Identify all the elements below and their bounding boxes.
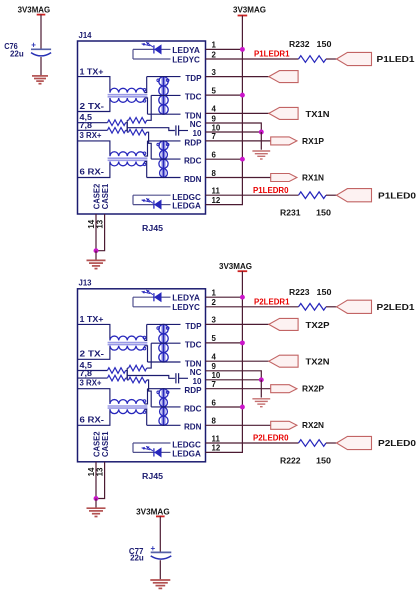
svg-text:P2LEDR0: P2LEDR0 (253, 434, 289, 443)
svg-text:TDC: TDC (185, 340, 202, 349)
wire CASE2 pin 14 stub (J14) (95, 214, 97, 251)
wire pin6 RX- into choke (J14) (78, 162, 110, 178)
svg-text:6: 6 (212, 398, 217, 407)
LED yellow LEDYA/LEDYC inside J14 (133, 42, 171, 59)
svg-text:2 TX-: 2 TX- (80, 102, 105, 111)
svg-text:TDC: TDC (185, 93, 202, 102)
wire choke to RX transformer top (J13) (145, 389, 148, 404)
wire to chassis ground (J14) (95, 251, 97, 260)
connector J14 RJ45 jack body (78, 41, 206, 214)
svg-text:7: 7 (212, 132, 217, 141)
wire pin3 RX+ into choke (J13) (78, 389, 110, 404)
LED green LEDGC/LEDGA inside J14 (133, 195, 171, 209)
transformer RX common-mode choke (J14) (108, 152, 148, 166)
wire CASE1 pin 13 stub (J14) (96, 214, 105, 251)
svg-text:6: 6 (212, 151, 217, 160)
capacitor C76 22u (31, 41, 51, 56)
svg-text:P2LED1: P2LED1 (377, 303, 416, 312)
ground shield pins 9/10 (J13) (252, 399, 270, 407)
wire choke to TX transformer bottom (J14) (145, 98, 148, 114)
wire pin12 to 3V3MAG rail end (J14) (206, 204, 244, 206)
power symbol 3V3MAG top left (37, 14, 46, 16)
wire RX centre-tap to transformer (J14) (147, 132, 152, 159)
wire TDN tap (J13) (148, 361, 181, 363)
transformer RX isolation (J14) (157, 141, 169, 178)
svg-text:TX1N: TX1N (306, 110, 330, 119)
svg-text:1 TX+: 1 TX+ (80, 315, 104, 324)
wire pin5 to 3V3MAG rail (J14) (206, 94, 243, 96)
svg-text:RX1N: RX1N (302, 173, 324, 182)
wire pin3 to port (J13) (206, 323, 269, 325)
port P1LED0 (J14) (337, 189, 372, 202)
port RX2P pin7 (J13) (271, 385, 297, 393)
wire pin11 to resistor (J14) (206, 194, 299, 196)
svg-text:10: 10 (212, 123, 221, 132)
port RX1P pin7 (J14) (271, 137, 297, 145)
svg-text:P1LEDR1: P1LEDR1 (254, 50, 290, 59)
wire choke to TX transformer bottom (J13) (145, 346, 148, 362)
svg-text:3V3MAG: 3V3MAG (233, 6, 266, 15)
svg-text:3V3MAG: 3V3MAG (136, 508, 170, 517)
wire pin8 to port (J13) (206, 424, 271, 426)
svg-text:9: 9 (212, 114, 217, 123)
wire pin5 to 3V3MAG rail (J13) (206, 342, 243, 344)
svg-text:P1LED1: P1LED1 (377, 55, 416, 64)
resistor R223 150 (J13) (299, 304, 327, 311)
svg-text:150: 150 (316, 457, 332, 466)
svg-text:LEDGA: LEDGA (172, 449, 201, 458)
svg-text:+: + (151, 544, 156, 553)
junction pin1 rail (J13) (240, 295, 245, 300)
wire pin7 to port (J14) (206, 140, 271, 142)
wire TDP tap (J14) (147, 76, 181, 78)
wire C76 to ground (40, 57, 42, 75)
wire TX centre-tap to transformer (J13) (147, 343, 152, 368)
wire pin3 to port (J14) (206, 76, 269, 78)
capacitor 1nF chassis (J13) (176, 373, 179, 383)
wire pin2 TX- into choke (J14) (78, 98, 110, 112)
LED green LEDGC/LEDGA inside J13 (133, 443, 171, 457)
wire pin2 to resistor (J13) (206, 306, 299, 308)
wire resistor to port P1LED0 (J14) (326, 194, 337, 196)
wire pin6 RX- into choke (J13) (78, 409, 110, 425)
wire choke to TX transformer top (J14) (145, 77, 147, 93)
transformer RX common-mode choke (J13) (108, 400, 148, 414)
port TX+ pin3 (J14) (269, 71, 298, 83)
resistor 75R RX centre-tap (J14) (127, 129, 147, 135)
svg-text:11: 11 (212, 434, 221, 443)
svg-text:RDN: RDN (184, 423, 202, 432)
wire RDP tap (J13) (148, 388, 181, 390)
svg-text:RX2N: RX2N (302, 421, 324, 430)
wire choke to TX transformer top (J13) (145, 324, 147, 340)
ground shield pins 9/10 (J14) (252, 151, 270, 159)
svg-text:3: 3 (212, 316, 217, 325)
wire pin7 to port (J13) (206, 388, 271, 390)
junction pin5 rail (J13) (240, 340, 245, 345)
svg-text:9: 9 (212, 362, 217, 371)
wire pin9 NC (J13) (206, 371, 262, 380)
transformer TX isolation (J13) (157, 324, 169, 362)
svg-text:RDN: RDN (184, 175, 202, 184)
port P2LED0 (J13) (337, 436, 372, 449)
wire pin8 to port (J14) (206, 177, 271, 179)
svg-text:4: 4 (212, 353, 217, 362)
wire TDC tap (J13) (151, 342, 180, 344)
svg-text:LEDYA: LEDYA (172, 46, 200, 55)
junction pins 9/10 (J13) (259, 377, 264, 382)
svg-text:8: 8 (212, 417, 217, 426)
wire 3V3MAG rail down right side of J13 (241, 271, 243, 452)
power symbol 3V3MAG for J14 rail (238, 15, 248, 17)
svg-text:11: 11 (212, 187, 221, 196)
wire C77 to ground (159, 560, 161, 579)
wire pin4 to port (J13) (206, 360, 269, 362)
port TX2N pin4 (J13) (269, 355, 298, 367)
wire pins 4,5 to termination resistor (J13) (78, 370, 108, 372)
wire TX centre-tap to transformer (J14) (147, 95, 152, 120)
junction pin5 rail (J14) (240, 93, 245, 98)
svg-text:J14: J14 (79, 31, 92, 40)
svg-text:CASE1: CASE1 (101, 183, 110, 209)
svg-text:3: 3 (212, 68, 217, 77)
svg-text:3V3MAG: 3V3MAG (18, 6, 51, 15)
connector J13 RJ45 jack body (78, 289, 206, 462)
wire choke to RX transformer top (J14) (145, 141, 148, 156)
wire pin11 to resistor (J13) (206, 442, 299, 444)
wire 3V3MAG rail down right side of J14 (241, 16, 243, 205)
wire to chassis ground (J13) (95, 499, 97, 508)
svg-text:R222: R222 (280, 457, 301, 466)
svg-text:RJ45: RJ45 (142, 471, 163, 481)
svg-text:+: + (31, 41, 36, 50)
svg-text:13: 13 (95, 219, 104, 228)
svg-text:TDP: TDP (185, 74, 202, 83)
port P2LED1 (J13) (337, 300, 372, 313)
transformer TX common-mode choke (J14) (108, 88, 148, 102)
svg-text:P2LEDR1: P2LEDR1 (254, 297, 290, 306)
svg-text:5: 5 (212, 86, 217, 95)
resistor 75R termination pins 4,5 (J13) (107, 368, 125, 374)
svg-text:J13: J13 (79, 279, 92, 288)
wire pin6 to 3V3MAG rail (J14) (206, 158, 243, 160)
capacitor 1nF chassis (J14) (176, 125, 179, 135)
ground below C76 (32, 76, 48, 84)
wire CASE1 pin 13 stub (J13) (96, 462, 105, 499)
svg-text:7: 7 (212, 380, 217, 389)
wire RDN tap (J13) (147, 424, 181, 426)
wire RDN tap (J14) (147, 177, 181, 179)
svg-text:LEDYC: LEDYC (172, 55, 200, 64)
wire CASE2 pin 14 stub (J13) (95, 462, 97, 499)
svg-text:LEDYA: LEDYA (172, 294, 200, 303)
wire pins 7,8 to termination resistor (J14) (78, 129, 108, 131)
ground below C77 (150, 580, 170, 588)
svg-text:P2LED0: P2LED0 (378, 439, 417, 448)
resistor 75R TX centre-tap (J14) (127, 118, 147, 124)
wire TDP tap (J13) (147, 323, 181, 325)
svg-text:LEDGC: LEDGC (172, 441, 201, 450)
svg-text:7,8: 7,8 (80, 369, 93, 378)
svg-text:3 RX+: 3 RX+ (80, 379, 102, 388)
junction pin6 rail (J13) (240, 405, 245, 410)
wire pin2 TX- into choke (J13) (78, 346, 110, 360)
LED yellow LEDYA/LEDYC inside J13 (133, 290, 171, 307)
svg-text:1: 1 (212, 289, 217, 298)
svg-text:RX1P: RX1P (302, 137, 325, 146)
ground chassis below J14 (87, 260, 106, 268)
wire pin6 to 3V3MAG rail (J13) (206, 406, 243, 408)
svg-text:150: 150 (317, 288, 333, 297)
wire RX centre-tap to transformer (J13) (147, 380, 152, 407)
svg-text:6 RX-: 6 RX- (80, 416, 105, 425)
svg-text:LEDGC: LEDGC (172, 193, 201, 202)
wire pin1 TX+ into choke (J14) (78, 77, 110, 93)
wire pin2 to resistor (J14) (206, 58, 299, 60)
wire choke to RX transformer bottom (J13) (145, 409, 147, 425)
svg-text:22u: 22u (130, 554, 144, 563)
junction pins 9/10 (J14) (259, 130, 264, 135)
svg-text:LEDGA: LEDGA (172, 202, 201, 211)
svg-text:3 RX+: 3 RX+ (80, 131, 102, 140)
resistor 75R termination pins 7,8 (J14) (107, 128, 125, 134)
transformer TX isolation (J14) (157, 77, 169, 115)
wire 3V3MAG to C76 (40, 15, 42, 49)
svg-text:13: 13 (95, 467, 104, 476)
wire resistor to port P2LED1 (J13) (326, 306, 337, 308)
svg-text:3V3MAG: 3V3MAG (219, 262, 252, 271)
svg-text:2: 2 (212, 50, 217, 59)
svg-text:150: 150 (317, 40, 333, 49)
power symbol 3V3MAG bottom (156, 515, 165, 517)
svg-text:12: 12 (212, 444, 221, 453)
wire RDP tap (J14) (148, 140, 181, 142)
wire shield to ground (J14) (260, 132, 262, 150)
junction CASE pins (J14) (94, 248, 99, 253)
svg-text:P1LED0: P1LED0 (378, 191, 417, 200)
resistor 75R RX centre-tap (J13) (127, 377, 147, 383)
svg-text:150: 150 (316, 209, 332, 218)
transformer RX isolation (J13) (157, 389, 169, 426)
svg-text:12: 12 (212, 196, 221, 205)
wire resistor to port P1LED1 (J14) (326, 58, 337, 60)
wire capacitor to pin 10 (J14) (179, 130, 188, 132)
svg-text:7,8: 7,8 (80, 121, 93, 130)
svg-text:1: 1 (212, 41, 217, 50)
wire capacitor to pin 10 (J13) (179, 377, 188, 379)
svg-text:8: 8 (212, 169, 217, 178)
svg-text:RDP: RDP (184, 386, 202, 395)
port TX1N pin4 (J14) (269, 107, 298, 119)
wire pins 7,8 to termination resistor (J13) (78, 377, 108, 379)
wire pin10 to shield ground (J14) (206, 131, 262, 133)
junction CASE pins (J13) (94, 496, 99, 501)
svg-text:2: 2 (212, 298, 217, 307)
svg-text:22u: 22u (10, 49, 24, 58)
wire shield to ground (J13) (260, 380, 262, 398)
capacitor C77 22u (151, 544, 172, 559)
svg-text:2 TX-: 2 TX- (80, 350, 105, 359)
junction pin6 rail (J14) (240, 157, 245, 162)
wire pin4 to port (J14) (206, 112, 269, 114)
svg-text:CASE1: CASE1 (101, 431, 110, 457)
resistor R231 150 (J14) (299, 192, 327, 199)
svg-text:R223: R223 (289, 288, 310, 297)
wire pin1 to 3V3MAG rail (J13) (206, 296, 243, 298)
wire termination node to capacitor (J14) (127, 128, 175, 131)
junction pin1 rail (J14) (240, 47, 245, 52)
wire 3V3MAG to C77 (159, 516, 161, 551)
svg-text:RDP: RDP (184, 138, 202, 147)
wire pin3 RX+ into choke (J14) (78, 141, 110, 156)
svg-text:RDC: RDC (184, 404, 202, 413)
node common termination (J13) (126, 368, 128, 380)
wire pins 4,5 to termination resistor (J14) (78, 122, 108, 124)
svg-text:RJ45: RJ45 (142, 223, 163, 233)
svg-text:10: 10 (212, 371, 221, 380)
resistor 75R termination pins 4,5 (J14) (107, 120, 125, 126)
svg-text:10: 10 (192, 129, 202, 138)
ground chassis below J13 (87, 508, 106, 516)
transformer TX common-mode choke (J13) (108, 336, 148, 350)
svg-text:NC: NC (190, 120, 202, 129)
wire choke to RX transformer bottom (J14) (145, 162, 147, 178)
svg-text:10: 10 (192, 377, 202, 386)
node common termination (J14) (126, 120, 128, 132)
wire resistor to port P2LED0 (J13) (326, 442, 337, 444)
svg-text:TX2P: TX2P (306, 321, 331, 330)
wire pin1 TX+ into choke (J13) (78, 324, 110, 340)
svg-text:P1LEDR0: P1LEDR0 (253, 186, 289, 195)
svg-text:1 TX+: 1 TX+ (80, 67, 104, 76)
port RX1N pin8 (J14) (271, 174, 297, 182)
wire pin1 to 3V3MAG rail (J14) (206, 48, 243, 50)
svg-text:TX2N: TX2N (306, 358, 330, 367)
svg-text:TDP: TDP (185, 322, 202, 331)
wire TDN tap (J14) (148, 113, 181, 115)
wire pin12 to 3V3MAG rail end (J13) (206, 451, 244, 453)
resistor R232 150 (J14) (299, 56, 327, 63)
wire pin9 NC (J14) (206, 123, 262, 132)
port RX2N pin8 (J13) (271, 421, 297, 429)
resistor R222 150 (J13) (299, 440, 327, 447)
svg-text:5: 5 (212, 334, 217, 343)
wire TDC tap (J14) (151, 94, 180, 96)
svg-text:6 RX-: 6 RX- (80, 168, 105, 177)
svg-text:NC: NC (190, 368, 202, 377)
port TX+ pin3 (J13) (269, 318, 298, 330)
svg-text:R232: R232 (289, 40, 310, 49)
port P1LED1 (J14) (337, 52, 372, 65)
power symbol 3V3MAG for J13 rail (238, 270, 248, 272)
svg-text:RX2P: RX2P (302, 385, 325, 394)
resistor 75R termination pins 7,8 (J13) (107, 375, 125, 381)
resistor 75R TX centre-tap (J13) (127, 365, 147, 371)
wire pin10 to shield ground (J13) (206, 379, 262, 381)
wire RDC tap (J14) (151, 158, 180, 160)
svg-text:R231: R231 (280, 209, 301, 218)
svg-text:RDC: RDC (184, 157, 202, 166)
svg-text:LEDYC: LEDYC (172, 303, 200, 312)
wire termination node to capacitor (J13) (127, 376, 175, 379)
wire RDC tap (J13) (151, 406, 180, 408)
svg-text:4: 4 (212, 105, 217, 114)
